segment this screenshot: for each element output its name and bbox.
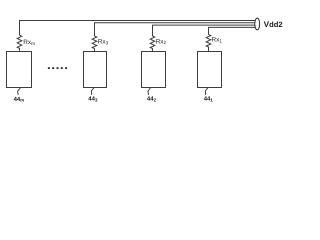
label Vdd2 xyxy=(264,20,283,29)
label 442 xyxy=(147,96,157,103)
svg-text:Rx3: Rx3 xyxy=(98,39,109,46)
wire net m rail xyxy=(20,21,256,36)
resistor Rxm xyxy=(17,35,22,51)
box 441 xyxy=(198,52,222,88)
svg-text:441: 441 xyxy=(204,96,214,103)
resistor Rx1 xyxy=(206,35,211,52)
wire net 3 rail xyxy=(95,23,256,36)
label 44m xyxy=(14,96,25,103)
label 443 xyxy=(88,96,98,103)
label Rxm xyxy=(23,39,35,46)
svg-text:Rx2: Rx2 xyxy=(156,38,167,45)
label Rx3 xyxy=(98,39,109,46)
svg-text:Rx1: Rx1 xyxy=(212,37,223,44)
label Rx1 xyxy=(212,37,223,44)
wire net 2 rail xyxy=(153,25,256,36)
svg-text:Rxm: Rxm xyxy=(23,39,35,46)
resistor Rx3 xyxy=(92,36,97,52)
leader line 443 xyxy=(91,88,93,95)
terminal Vdd2 xyxy=(255,18,260,30)
resistor Rx2 xyxy=(150,36,155,52)
box 443 xyxy=(84,52,107,88)
svg-text:Vdd2: Vdd2 xyxy=(264,20,283,29)
wire net 1 rail xyxy=(209,27,256,34)
svg-text:443: 443 xyxy=(88,96,98,103)
svg-text:44m: 44m xyxy=(14,96,25,103)
ellipsis dots between 44m and 443 xyxy=(48,67,67,69)
leader line 442 xyxy=(148,88,150,95)
svg-text:442: 442 xyxy=(147,96,157,103)
label Rx2 xyxy=(156,38,167,45)
box 44m xyxy=(7,52,32,88)
leader line 44m xyxy=(18,88,21,95)
box 442 xyxy=(142,52,166,88)
label 441 xyxy=(204,96,214,103)
leader line 441 xyxy=(205,88,207,95)
